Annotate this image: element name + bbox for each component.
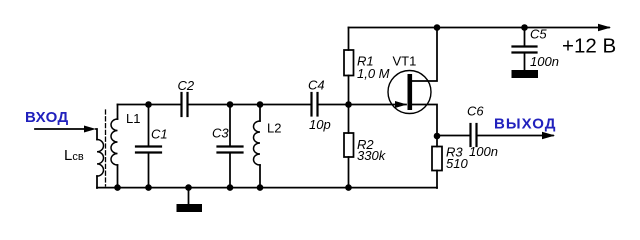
svg-text:100n: 100n (469, 144, 498, 159)
svg-text:+12 В: +12 В (562, 35, 616, 58)
svg-text:L2: L2 (267, 121, 281, 136)
svg-text:C6: C6 (467, 104, 484, 119)
ground (177, 188, 203, 212)
inductor L2 (254, 105, 261, 189)
resistor R1 (344, 28, 354, 105)
wire mid rail left (118, 104, 182, 106)
wire top rail with arrow (349, 24, 612, 32)
svg-text:330k: 330k (357, 148, 387, 163)
svg-text:VT1: VT1 (393, 54, 417, 69)
capacitor C3 (218, 105, 243, 189)
svg-text:10p: 10p (309, 117, 331, 132)
svg-text:L1: L1 (126, 111, 140, 126)
svg-text:C4: C4 (308, 78, 325, 93)
wire mid rail center (189, 104, 312, 106)
capacitor C1 (136, 105, 161, 189)
svg-text:C5: C5 (530, 27, 547, 42)
capacitor C5 (513, 28, 537, 71)
transistor VT1 (388, 28, 437, 137)
svg-text:ВЫХОД: ВЫХОД (494, 116, 557, 133)
svg-text:1,0 М: 1,0 М (357, 66, 390, 81)
svg-text:ВХОД: ВХОД (25, 109, 69, 126)
svg-text:C3: C3 (212, 126, 229, 141)
svg-text:C2: C2 (178, 78, 195, 93)
wire input line with arrow (35, 126, 97, 140)
inductor Lсв (97, 140, 104, 189)
resistor R2 (344, 105, 354, 189)
svg-text:100n: 100n (530, 54, 559, 69)
wire output line with arrow (478, 132, 556, 140)
capacitor C2 (182, 93, 188, 116)
resistor R3 (432, 136, 442, 188)
wire base line (319, 104, 407, 106)
svg-text:C1: C1 (151, 127, 168, 142)
inductor L1 (111, 105, 118, 189)
wire bottom rail (97, 187, 437, 189)
ground C5 (512, 70, 539, 78)
svg-text:510: 510 (446, 156, 468, 171)
coupling dashed line (105, 110, 107, 186)
capacitor C6 (437, 124, 477, 146)
capacitor C4 (312, 93, 318, 116)
